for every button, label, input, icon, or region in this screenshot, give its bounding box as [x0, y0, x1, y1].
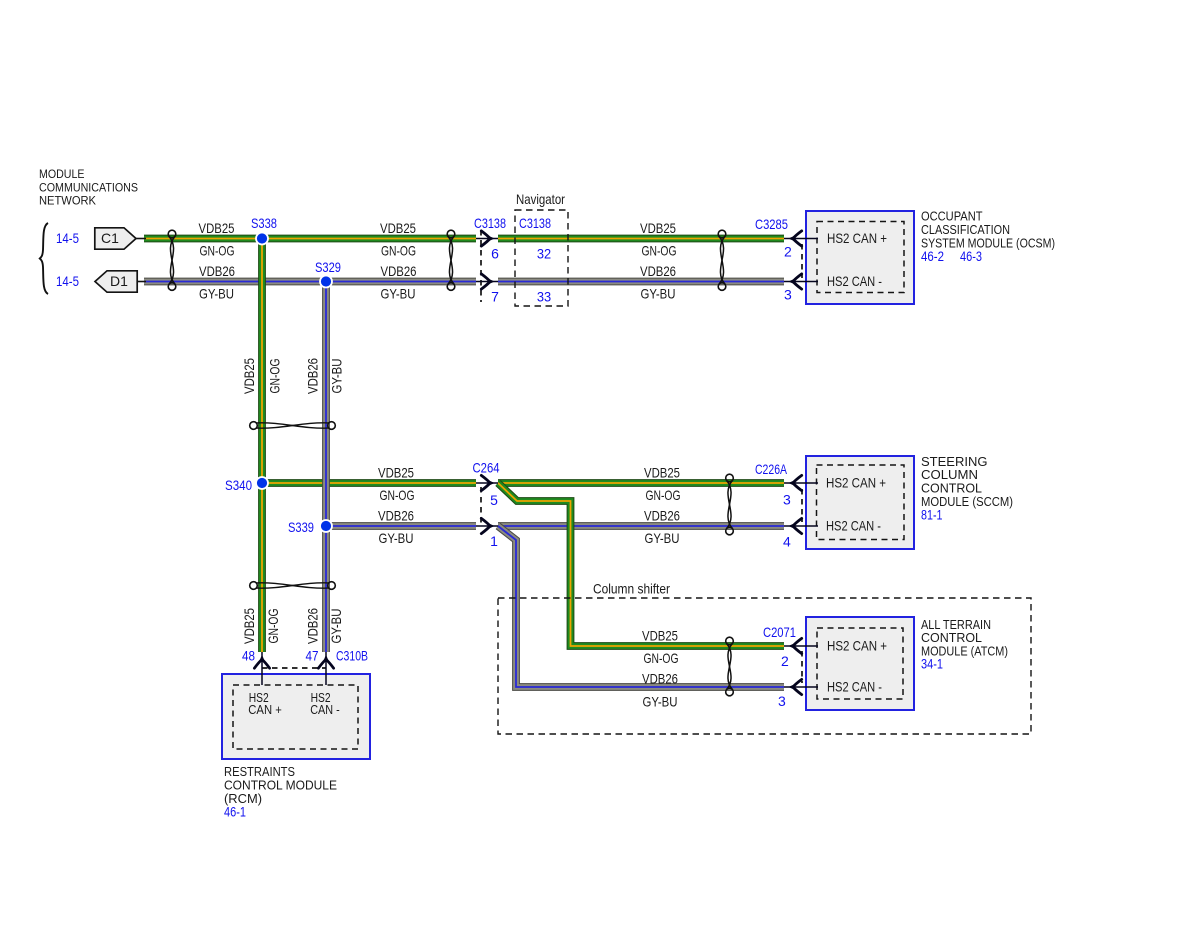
RCM title [224, 764, 337, 806]
wire: VDB25 GN-OG row C264 to C226A [498, 479, 784, 487]
svg-text:GY-BU: GY-BU [641, 286, 676, 302]
twisted pair symbol top row at x=722 [718, 230, 726, 290]
svg-text:VDB25: VDB25 [241, 608, 257, 644]
svg-text:GN-OG: GN-OG [265, 609, 281, 644]
svg-text:GY-BU: GY-BU [329, 359, 345, 394]
svg-text:46-2: 46-2 [921, 248, 944, 264]
svg-text:HS2 CAN -: HS2 CAN - [826, 518, 881, 534]
connector C226A pin 3 terminal [784, 475, 818, 490]
svg-text:2: 2 [781, 653, 789, 669]
connector C3285 dashed line [801, 244, 803, 278]
svg-text:3: 3 [784, 287, 792, 303]
svg-text:GN-OG: GN-OG [380, 487, 415, 503]
connector C310B dashed line [262, 667, 326, 669]
svg-text:GY-BU: GY-BU [643, 694, 678, 710]
svg-text:14-5: 14-5 [56, 273, 79, 289]
svg-text:GY-BU: GY-BU [328, 609, 344, 644]
wire: VDB26 GY-BU top row C3138 to C3285 [498, 278, 784, 286]
wire: VDB26 GY-BU row C264 to C226A [498, 522, 784, 530]
svg-text:5: 5 [490, 492, 498, 508]
svg-text:GN-OG: GN-OG [644, 650, 679, 666]
svg-text:MODULE: MODULE [39, 167, 85, 181]
splice S339 [320, 520, 332, 532]
connector C3138 pin 7 inline terminal [476, 274, 498, 289]
connector D1 pentagon [95, 271, 146, 292]
svg-text:GY-BU: GY-BU [645, 530, 680, 546]
connector C264 pin 5 inline terminal [476, 475, 498, 490]
wire: VDB25 GN-OG top row C1 to C3138 [144, 235, 476, 243]
svg-text:HS2 CAN -: HS2 CAN - [827, 679, 882, 695]
twisted pair symbol vertical pair at y=585 [250, 582, 336, 590]
svg-text:HS2 CAN -: HS2 CAN - [827, 273, 882, 289]
svg-text:2: 2 [784, 244, 792, 260]
wire: VDB25 GN-OG top row C3138 to C3285 [498, 235, 784, 243]
svg-text:C264: C264 [473, 460, 500, 476]
svg-text:VDB26: VDB26 [640, 263, 676, 279]
wire: VDB25 GN-OG vertical from S338 down to RCM pin 48 [258, 239, 266, 653]
svg-text:46-1: 46-1 [224, 804, 246, 820]
splice S329 [320, 276, 332, 288]
svg-text:4: 4 [783, 534, 791, 550]
svg-text:Column shifter: Column shifter [593, 581, 670, 597]
left brace [40, 223, 48, 294]
svg-text:VDB26: VDB26 [381, 263, 417, 279]
svg-text:33: 33 [537, 289, 551, 305]
wire: VDB25 GN-OG row S340 to C264 [262, 479, 476, 487]
wire: VDB26 GY-BU row S339 to C264 [326, 522, 476, 530]
svg-text:HS2 CAN +: HS2 CAN + [826, 475, 886, 491]
module OCSM box [806, 211, 914, 304]
Navigator option dashed box [515, 210, 568, 306]
wire: VDB26 GY-BU branch C264 to C2071 (ATCM) [498, 526, 784, 687]
connector C310B pin 47 terminal [318, 652, 333, 685]
svg-text:GN-OG: GN-OG [200, 243, 235, 259]
svg-text:VDB25: VDB25 [380, 220, 416, 236]
svg-text:VDB26: VDB26 [305, 608, 321, 644]
svg-text:3: 3 [778, 693, 786, 709]
connector C310B pin 48 terminal [254, 652, 269, 685]
svg-text:NETWORK: NETWORK [39, 194, 97, 208]
svg-text:VDB26: VDB26 [642, 671, 678, 687]
svg-text:VDB26: VDB26 [305, 358, 321, 394]
wire: VDB26 GY-BU vertical from S329 down to RCM pin 47 [322, 282, 330, 653]
svg-text:GN-OG: GN-OG [642, 243, 677, 259]
connector C3138 pin 6 inline terminal [476, 231, 498, 246]
svg-text:C1: C1 [101, 230, 119, 246]
svg-text:HS2 CAN +: HS2 CAN + [827, 638, 887, 654]
svg-text:VDB26: VDB26 [199, 263, 235, 279]
svg-text:GN-OG: GN-OG [381, 243, 416, 259]
OCSM title [921, 209, 1055, 251]
SCCM title [921, 454, 1013, 509]
svg-text:VDB25: VDB25 [642, 628, 678, 644]
svg-text:GN-OG: GN-OG [646, 487, 681, 503]
svg-text:46-3: 46-3 [960, 248, 982, 264]
connector C264 pin 1 inline terminal [476, 518, 498, 533]
svg-text:VDB25: VDB25 [378, 465, 414, 481]
twisted pair symbol SCCM row at x=729.5 [726, 474, 734, 535]
svg-text:C310B: C310B [336, 648, 368, 664]
svg-text:C3138: C3138 [474, 215, 506, 231]
twisted pair symbol top row at x=451 [447, 230, 455, 290]
svg-text:COMMUNICATIONS: COMMUNICATIONS [39, 181, 138, 195]
twisted pair symbol top row at x=172 [168, 230, 176, 290]
module SCCM box [806, 456, 914, 549]
module ATCM box [806, 617, 914, 710]
connector C2071 pin 2 terminal [784, 638, 818, 653]
connector C2071 pin 3 terminal [784, 679, 818, 694]
svg-text:47: 47 [306, 648, 319, 664]
connector C2071 dashed line [801, 651, 803, 683]
connector C3138 dashed line [480, 230, 482, 302]
heading MODULE COMMUNICATIONS NETWORK [39, 167, 138, 208]
Column shifter option dashed box [498, 598, 1031, 734]
twisted pair symbol ATCM row at x=729.5 [726, 637, 734, 696]
svg-text:S338: S338 [251, 215, 277, 231]
connector C3285 pin 2 terminal [784, 231, 818, 246]
svg-text:S339: S339 [288, 519, 314, 535]
svg-text:S340: S340 [225, 477, 252, 493]
RCM HS2 CAN - [310, 691, 340, 717]
wire: VDB26 GY-BU top row D1 to C3138 [144, 278, 476, 286]
svg-text:HS2 CAN +: HS2 CAN + [827, 230, 887, 246]
svg-text:VDB26: VDB26 [378, 508, 414, 524]
svg-text:14-5: 14-5 [56, 230, 79, 246]
svg-text:GN-OG: GN-OG [267, 359, 283, 394]
connector C1 pentagon [95, 228, 146, 249]
wire: VDB25 GN-OG branch C264 to C2071 (ATCM) [498, 483, 784, 646]
RCM HS2 CAN + [248, 691, 281, 717]
svg-text:1: 1 [490, 533, 498, 549]
svg-text:C2071: C2071 [763, 624, 796, 640]
svg-text:34-1: 34-1 [921, 656, 943, 672]
svg-text:VDB25: VDB25 [640, 220, 676, 236]
svg-text:7: 7 [491, 289, 499, 305]
svg-text:81-1: 81-1 [921, 507, 943, 523]
connector C264 dashed line [480, 487, 482, 524]
svg-text:6: 6 [491, 246, 499, 262]
svg-text:Navigator: Navigator [516, 191, 565, 207]
svg-text:S329: S329 [315, 259, 341, 275]
svg-text:C3285: C3285 [755, 216, 788, 232]
svg-text:CAN +: CAN + [248, 703, 281, 717]
svg-text:GY-BU: GY-BU [199, 286, 234, 302]
svg-text:C3138: C3138 [519, 215, 551, 231]
connector C3285 pin 3 terminal [784, 274, 818, 289]
svg-text:GY-BU: GY-BU [381, 286, 416, 302]
splice S340 [256, 477, 268, 489]
svg-text:C226A: C226A [755, 461, 787, 477]
connector C226A dashed line [801, 489, 803, 522]
splice S338 [256, 233, 268, 245]
svg-text:32: 32 [537, 246, 551, 262]
svg-text:3: 3 [783, 492, 791, 508]
svg-text:VDB25: VDB25 [644, 465, 680, 481]
svg-text:D1: D1 [110, 273, 128, 289]
svg-text:GY-BU: GY-BU [379, 530, 414, 546]
svg-text:48: 48 [242, 648, 255, 664]
twisted pair symbol vertical pair at y=425 [250, 422, 336, 430]
svg-text:CAN -: CAN - [310, 703, 340, 717]
svg-text:VDB26: VDB26 [644, 508, 680, 524]
ATCM title [921, 617, 1008, 659]
connector C226A pin 4 terminal [784, 518, 818, 533]
svg-text:VDB25: VDB25 [241, 358, 257, 394]
svg-text:VDB25: VDB25 [199, 220, 235, 236]
module RCM box [222, 674, 370, 759]
